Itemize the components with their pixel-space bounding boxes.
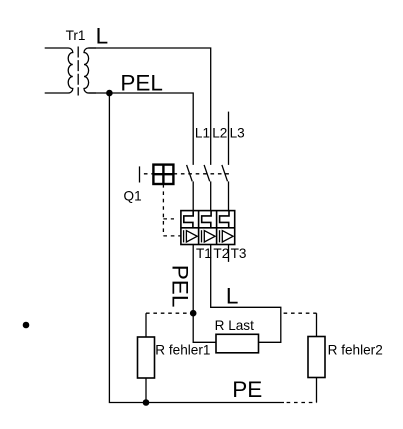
wire PEL top bbox=[89, 93, 194, 165]
transformer Tr1 core bbox=[77, 47, 79, 96]
wire pole 3 to overload bbox=[228, 181, 230, 210]
wire PE dashed segment bbox=[287, 402, 317, 404]
breaker Q1 contact blade pole 2 bbox=[204, 165, 210, 181]
resistor R Last bbox=[216, 334, 259, 353]
wire R fehler1 top lead bbox=[145, 313, 147, 337]
breaker Q1 contact blade pole 3 bbox=[222, 165, 228, 181]
wire dashed PEL measure to R fehler1 bbox=[146, 312, 193, 314]
breaker Q1 operator square bbox=[153, 165, 173, 184]
magnetic trip pole 3 bbox=[220, 230, 234, 242]
wire R fehler1 bottom lead bbox=[145, 378, 147, 403]
breaker Q1 trip link dashed vertical bbox=[162, 184, 164, 236]
svg-text:T2: T2 bbox=[213, 246, 229, 261]
thermal element pole 1 bbox=[184, 211, 193, 228]
resistor R fehler1 bbox=[138, 337, 155, 378]
transformer Tr1 secondary winding bbox=[84, 48, 96, 93]
node stray point bbox=[23, 322, 30, 329]
breaker Q1 contact blade pole 1 bbox=[187, 165, 193, 181]
wire T3 stub bbox=[228, 245, 230, 262]
breaker Q1 trip link dashed lower branch bbox=[163, 235, 180, 237]
svg-text:PEL: PEL bbox=[168, 265, 193, 308]
wire R fehler2 top lead bbox=[316, 313, 318, 336]
svg-text:R fehler1: R fehler1 bbox=[155, 342, 210, 357]
svg-text:Tr1: Tr1 bbox=[66, 28, 86, 43]
node PEL junction bbox=[106, 90, 113, 97]
svg-text:PEL: PEL bbox=[120, 71, 163, 96]
wire L3 stub bbox=[228, 112, 230, 165]
svg-text:R fehler2: R fehler2 bbox=[328, 343, 383, 358]
svg-text:PE: PE bbox=[232, 377, 262, 402]
svg-text:T3: T3 bbox=[231, 246, 247, 261]
svg-text:L1: L1 bbox=[195, 125, 210, 140]
thermal element pole 2 bbox=[202, 211, 211, 228]
breaker Q1 mechanical link dashed bbox=[144, 173, 231, 175]
svg-text:L3: L3 bbox=[230, 125, 245, 140]
breaker Q1 trip link dashed upper branch bbox=[163, 218, 174, 220]
resistor R fehler2 bbox=[308, 337, 325, 378]
magnetic trip pole 1 bbox=[184, 230, 198, 242]
svg-text:T1: T1 bbox=[196, 246, 212, 261]
node R fehler1 PE junction bbox=[143, 399, 150, 406]
wire T1 to R Last left bbox=[193, 245, 216, 343]
wire L top bbox=[89, 48, 211, 165]
magnetic trip pole 2 bbox=[202, 230, 216, 242]
overload unit box bbox=[181, 211, 235, 245]
wire pole 1 to overload bbox=[192, 181, 194, 210]
wire T2 to R Last right loop bbox=[211, 245, 281, 343]
node T1/PEL junction bbox=[190, 310, 197, 317]
breaker Q1 latch tick bbox=[139, 166, 141, 182]
svg-text:R Last: R Last bbox=[215, 318, 255, 333]
wire pole 2 to overload bbox=[210, 181, 212, 210]
wire dashed L measure to R fehler2 bbox=[284, 312, 317, 314]
svg-text:Q1: Q1 bbox=[124, 189, 142, 204]
svg-text:L2: L2 bbox=[212, 125, 227, 140]
svg-text:L: L bbox=[96, 24, 109, 49]
thermal element pole 3 bbox=[220, 211, 229, 228]
wire R fehler2 bottom lead bbox=[316, 378, 318, 403]
svg-text:L: L bbox=[226, 283, 239, 308]
wire left rail PEL to PE bbox=[109, 93, 284, 403]
transformer Tr1 primary winding bbox=[45, 48, 73, 93]
